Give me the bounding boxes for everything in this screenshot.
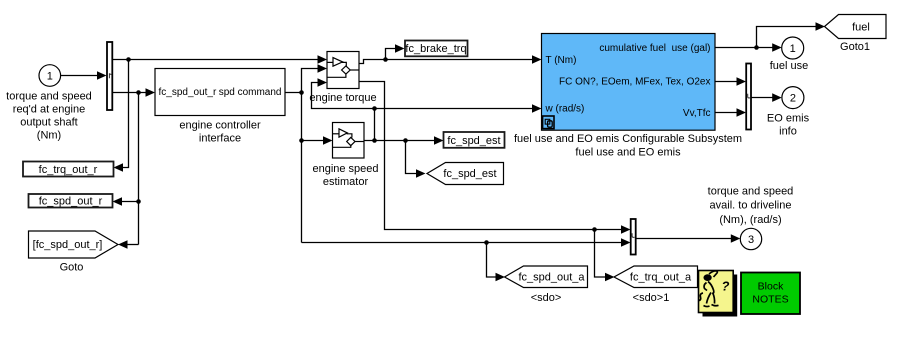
svg-text:FC ON?, EOem, MFex, Tex, O2ex: FC ON?, EOem, MFex, Tex, O2ex (559, 76, 711, 87)
Goto1 fuel tag (825, 15, 887, 39)
arrowhead into estimator (323, 136, 333, 145)
arrowhead into fc_trq_out_a (605, 273, 615, 282)
svg-text:1: 1 (790, 43, 796, 55)
svg-text:cumulative fuel use (gal): cumulative fuel use (gal) (599, 43, 710, 54)
arrowhead into outport1 (772, 43, 782, 52)
svg-text:Goto1: Goto1 (840, 41, 870, 53)
svg-text:Goto: Goto (60, 262, 84, 274)
svg-text:T (Nm): T (Nm) (546, 55, 577, 66)
configurable subsystem badge (543, 116, 554, 129)
outport 1 fuel use (782, 37, 804, 59)
junction node C (383, 57, 388, 62)
wire: w line left to engine torque in3 (312, 83, 375, 109)
svg-text:spd command: spd command (219, 87, 282, 98)
arrowhead into blue T input (532, 55, 542, 64)
svg-text:engine speed: engine speed (312, 163, 378, 175)
outport 3 (740, 228, 761, 249)
wire: controller out to node B (285, 92, 302, 94)
wire: node W up to w line (374, 109, 376, 141)
junction node W (372, 138, 377, 143)
inport 1 circle (39, 65, 61, 87)
svg-text:engine controller: engine controller (179, 119, 261, 131)
annotation: torque and speed req'd (6, 91, 92, 142)
svg-text:engine torque: engine torque (309, 92, 376, 104)
wire: node C to blue block T input (386, 59, 534, 61)
wire: branch to fc_spd_out_r (122, 201, 139, 203)
wire: demux out2 to engine controller (113, 92, 147, 94)
svg-text:fc_spd_est: fc_spd_est (447, 135, 500, 147)
svg-text:Block: Block (758, 281, 784, 293)
wire: w line right to blue block w input (375, 108, 534, 110)
arrowhead into engine torque in1 (318, 55, 328, 64)
arrowhead into mux2 in2 (621, 238, 631, 247)
Goto block [fc_spd_out_r] (29, 231, 119, 258)
wire: node C up to fc_brake_trq (386, 49, 397, 60)
svg-text:torque and speed: torque and speed (708, 185, 794, 197)
wire: branch down to fc_trq_out_a (595, 230, 606, 278)
arrowhead into engine torque in2 (318, 64, 328, 73)
junction node demux out1 (126, 57, 131, 62)
wire: node B up to engine torque in2 (302, 69, 319, 93)
arrowhead into mux2 in1 (621, 225, 631, 234)
svg-text:(Nm), (rad/s): (Nm), (rad/s) (719, 214, 781, 226)
svg-text:?: ? (722, 279, 730, 294)
junction node sdo trq (592, 227, 597, 232)
svg-text:req'd at engine: req'd at engine (13, 104, 85, 116)
demux (107, 42, 112, 110)
wire: branch down to fc_spd_est goto (406, 141, 417, 174)
doc block (yellow monkey note) (699, 271, 738, 317)
arrowhead into fc_trq_out_r (114, 163, 124, 172)
arrowhead into blue w input (532, 104, 542, 113)
wire: blue out2 to mux1 (715, 81, 738, 83)
fc_brake_trq display block (405, 41, 468, 57)
svg-text:fc_spd_out_r: fc_spd_out_r (159, 87, 217, 98)
svg-text:fuel use and EO emis Configura: fuel use and EO emis Configurable Subsys… (514, 133, 742, 145)
junction node fuel (754, 45, 759, 50)
svg-text:output shaft: output shaft (20, 117, 78, 129)
wire: mux1 out to outport2 (751, 97, 773, 99)
From tag fc_spd_out_a (505, 266, 588, 288)
arrowhead into Goto1 fuel (816, 22, 826, 31)
wire: engine torque out1 stub (359, 60, 386, 64)
junction node estimator in (299, 138, 304, 143)
junction node sdo spd (484, 240, 489, 245)
svg-text:fuel use and EO emis: fuel use and EO emis (575, 146, 681, 158)
arrowhead into Goto (118, 240, 128, 249)
arrowhead into mux1 in1 (737, 77, 747, 86)
engine speed estimator block (333, 123, 365, 159)
arrowhead into fc_spd_est goto (416, 169, 426, 178)
wire: blue out1 to fuel use (715, 47, 773, 49)
fc_spd_out_r display block (29, 194, 113, 208)
svg-text:estimator: estimator (323, 176, 369, 188)
fc_trq_out_r display block (23, 162, 114, 177)
arrowhead into demux (97, 71, 107, 80)
wire: demux out1 to engine torque in1 (113, 59, 319, 61)
wire: bottom spd wire to mux2 in2 (302, 242, 623, 244)
arrowhead into outport3 (731, 234, 741, 243)
arrowhead into engine controller (146, 88, 156, 97)
svg-text:fc_spd_out_r: fc_spd_out_r (39, 196, 103, 208)
svg-text:fc_spd_out_a: fc_spd_out_a (518, 272, 585, 284)
junction node demux out2 (136, 90, 141, 95)
svg-text:interface: interface (199, 132, 241, 144)
svg-text:avail. to driveline: avail. to driveline (710, 200, 792, 212)
svg-text:1: 1 (47, 70, 53, 82)
svg-text:2: 2 (790, 92, 796, 104)
annotation: torque and speed avail (708, 185, 794, 226)
junction node w-line (372, 106, 377, 111)
svg-text:<sdo>1: <sdo>1 (633, 292, 670, 304)
wire: inport1 to demux (61, 75, 98, 77)
svg-text:fc_trq_out_a: fc_trq_out_a (630, 272, 692, 284)
arrowhead into fc_spd_out_r (113, 197, 123, 206)
mux1 (746, 64, 751, 130)
svg-text:NOTES: NOTES (752, 294, 788, 306)
svg-text:fuel: fuel (852, 22, 870, 34)
svg-text:Vv,Tfc: Vv,Tfc (683, 108, 711, 119)
mux2 (631, 219, 636, 255)
svg-text:fc_trq_out_r: fc_trq_out_r (39, 164, 98, 176)
arrowhead into fc_spd_out_a (496, 273, 506, 282)
fc_spd_est display block (444, 132, 505, 148)
wire: branch demux out1 down to fc_trq_out_r (123, 60, 129, 168)
svg-text:info: info (779, 125, 797, 137)
From tag fc_trq_out_a (614, 266, 698, 288)
svg-text:torque and speed: torque and speed (6, 91, 92, 103)
arrowhead into fc_spd_est block (434, 136, 444, 145)
arrowhead into mux1 in2 (737, 108, 747, 117)
fc_spd_est goto tag (427, 163, 504, 185)
svg-text:3: 3 (748, 234, 754, 246)
wire: mux2 out to outport3 (636, 238, 731, 240)
wire: engine torque out2 down to mux2 in1 (359, 82, 622, 230)
svg-text:w (rad/s): w (rad/s) (545, 103, 585, 114)
arrowhead into engine torque in3 (318, 78, 328, 87)
fuel use and EO emis configurable subsystem (blue) (542, 34, 716, 131)
engine controller interface block (155, 69, 285, 116)
engine torque block (327, 52, 359, 89)
mux1 port mark (748, 94, 751, 98)
arrowhead into fc_brake_trq (395, 44, 405, 53)
svg-text:(Nm): (Nm) (37, 130, 61, 142)
arrowhead into outport2 (772, 93, 782, 102)
svg-text:fc_spd_est: fc_spd_est (443, 168, 496, 180)
wire: branch up to Goto1 fuel (757, 27, 817, 48)
svg-text:[fc_spd_out_r]: [fc_spd_out_r] (33, 239, 103, 251)
svg-text:fc_brake_trq: fc_brake_trq (405, 43, 466, 55)
junction node est tag (403, 138, 408, 143)
wire: branch to Goto (127, 244, 139, 246)
junction node B (299, 90, 304, 95)
svg-text:EO emis: EO emis (767, 113, 810, 125)
svg-text:<sdo>: <sdo> (531, 292, 562, 304)
svg-text:fuel use: fuel use (770, 60, 809, 72)
wire: node B down trunk (301, 93, 303, 243)
outport 2 EO emis info (782, 87, 804, 109)
wire: branch demux out2 down (138, 93, 140, 245)
junction node spd tag (136, 199, 141, 204)
wire: branch to engine speed estimator (302, 140, 325, 142)
Block NOTES (green) (741, 273, 800, 315)
mux2 port mark (632, 233, 635, 237)
wire: blue out3 to mux1 (715, 112, 738, 114)
demux port mark (109, 73, 111, 78)
wire: branch down to fc_spd_out_a (487, 243, 498, 278)
wire: estimator output (364, 140, 435, 142)
